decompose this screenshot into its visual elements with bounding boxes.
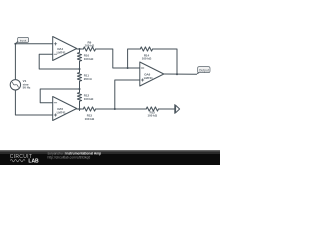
resistor R9 — [83, 47, 95, 51]
wire R14 right to OA6 output node — [153, 49, 177, 74]
node junction dots — [14, 43, 178, 110]
wire input node to OA4 plus input — [15, 43, 52, 45]
wire R15 to ground — [159, 108, 175, 110]
label OA4 — [57, 47, 66, 54]
resistor R15 — [146, 107, 158, 111]
output flag — [196, 67, 210, 75]
label R13 — [85, 113, 95, 120]
label OA6 — [144, 73, 153, 80]
svg-text:input: input — [20, 38, 27, 42]
node R14 left junction — [127, 67, 129, 69]
op-amp OA6 — [140, 62, 164, 86]
label V1 — [23, 79, 31, 90]
node input junction — [14, 43, 16, 45]
logo CircuitLab — [10, 154, 39, 165]
svg-text:http://circuitlab.com/c/893kq6: http://circuitlab.com/c/893kq6 — [48, 156, 91, 160]
input flag — [15, 37, 28, 43]
op-amp OA4 — [53, 37, 77, 61]
svg-text:100 kΩ: 100 kΩ — [148, 114, 158, 118]
node OA5 output junction — [78, 108, 80, 110]
label R15 — [148, 110, 158, 117]
wire OA6 output to Output flag — [164, 73, 197, 75]
wire input node down to V1 top — [14, 44, 16, 80]
wire V1 bottom down and right to OA5 plus input — [15, 90, 52, 115]
wire R13 to R15 — [96, 108, 147, 110]
node OA6 output junction — [176, 73, 178, 75]
footer bar — [0, 150, 220, 165]
svg-text:100 kΩ: 100 kΩ — [84, 97, 94, 101]
ground — [175, 105, 180, 114]
label R14 — [142, 53, 152, 60]
wire OA4 minus feedback loop — [39, 54, 79, 69]
svg-text:100 kΩ: 100 kΩ — [142, 57, 152, 61]
wire OA4 output to node — [77, 48, 84, 50]
wire OA5 minus feedback loop — [40, 89, 79, 103]
svg-text:100 kΩ: 100 kΩ — [84, 57, 94, 61]
svg-text:100 kΩ: 100 kΩ — [85, 117, 95, 121]
label R9 — [85, 40, 95, 47]
footer credit text — [48, 152, 102, 160]
label R12 — [84, 93, 94, 100]
node R10 R11 junction — [78, 68, 80, 70]
svg-text:LAB: LAB — [28, 159, 39, 165]
wire R14 left vertical — [128, 49, 141, 68]
op-amp OA5 — [53, 97, 77, 121]
resistor R13 — [83, 107, 95, 111]
wire OA5 output to node — [77, 108, 84, 110]
wire riser to OA6 plus input — [115, 80, 140, 109]
resistor R12 — [77, 89, 81, 110]
svg-text:200 Ω: 200 Ω — [84, 77, 93, 81]
svg-text:LM741: LM741 — [57, 51, 66, 55]
node R13 riser junction — [114, 108, 116, 110]
label OA5 — [57, 107, 66, 114]
node OA4 output junction — [78, 48, 80, 50]
label R11 — [84, 73, 93, 80]
svg-text:Output: Output — [199, 68, 209, 72]
wire R9 to OA6 minus input — [96, 49, 140, 68]
svg-text:50 Hz: 50 Hz — [23, 86, 31, 90]
svg-text:LM741: LM741 — [144, 76, 153, 80]
resistor R11 — [77, 69, 81, 90]
node R11 R12 junction — [78, 88, 80, 90]
label R10 — [84, 53, 94, 60]
resistor R14 — [140, 47, 152, 51]
svg-text:LM741: LM741 — [57, 111, 66, 115]
svg-text:100 kΩ: 100 kΩ — [85, 44, 95, 48]
voltage source V1 — [10, 80, 20, 90]
resistor R10 — [77, 49, 81, 70]
